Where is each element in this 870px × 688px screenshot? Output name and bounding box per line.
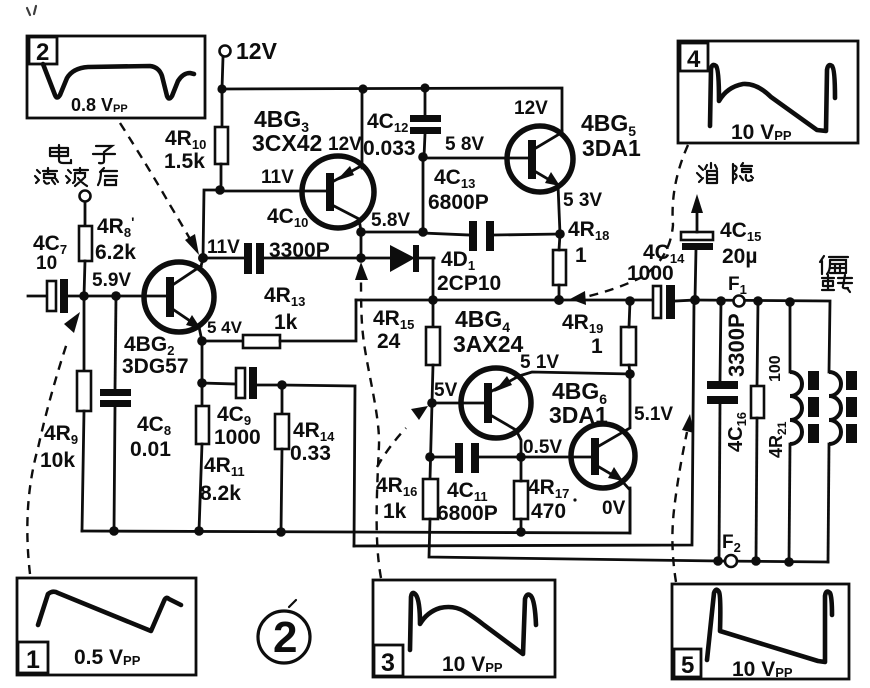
wire node down to BG2 collector node xyxy=(203,190,220,258)
waveform box 2 (0.8Vpp at BG2 collector) xyxy=(27,36,205,118)
svg-text:1: 1 xyxy=(26,646,40,674)
svg-text:3: 3 xyxy=(381,649,395,677)
capacitor C7 xyxy=(28,232,166,313)
svg-text:3300P: 3300P xyxy=(269,239,330,262)
capacitor C12 xyxy=(363,88,441,160)
svg-text:0.033: 0.033 xyxy=(363,137,416,160)
resistor R8 xyxy=(79,214,136,296)
node R19 top xyxy=(625,296,635,306)
node R21 bottom xyxy=(751,556,761,566)
svg-text:1000: 1000 xyxy=(627,262,674,285)
node C16 bottom xyxy=(713,556,723,566)
wire top rail xyxy=(222,88,562,132)
node main/N xyxy=(690,295,700,305)
svg-text:8.2k: 8.2k xyxy=(200,482,241,505)
core bars 1 xyxy=(808,371,819,443)
node BG2 emitter 5.4V xyxy=(197,336,207,346)
node bus C8 xyxy=(109,526,119,536)
svg-text:11V: 11V xyxy=(261,167,294,188)
waveform box 5 (10Vpp at yoke return) xyxy=(672,584,849,681)
svg-text:0.33: 0.33 xyxy=(290,442,331,465)
wire BG4 base to R16 xyxy=(430,403,432,479)
label dianzi lvbohou (after electronic filter) xyxy=(35,145,117,186)
transistor Q BG5 3DA1 xyxy=(507,98,641,234)
resistor R16 xyxy=(376,474,718,561)
svg-text:3DA1: 3DA1 xyxy=(549,402,608,428)
node C10-diode xyxy=(356,253,366,263)
resistor R17 xyxy=(514,457,577,532)
svg-text:5 3V: 5 3V xyxy=(563,190,602,211)
node yoke top xyxy=(785,297,795,307)
svg-text:0.5V: 0.5V xyxy=(523,437,562,458)
wire main line xyxy=(356,299,655,302)
dashed pointer from box 3 up to diode node xyxy=(355,262,381,578)
wire BG2 emitter down xyxy=(201,341,204,383)
resistor R10 xyxy=(164,89,228,190)
svg-text:5: 5 xyxy=(681,652,694,679)
inductor yoke winding 2 xyxy=(828,372,841,562)
svg-text:5 4V: 5 4V xyxy=(207,318,243,337)
node BG4 base 5V xyxy=(427,398,437,408)
svg-text:12V: 12V xyxy=(514,98,548,119)
transistor Q BG2 3DG57 xyxy=(122,259,214,378)
node rail-BG3emitter xyxy=(358,84,367,93)
svg-text:1.5k: 1.5k xyxy=(164,150,205,173)
svg-text:1: 1 xyxy=(575,244,587,267)
circled figure number 2 xyxy=(258,600,310,663)
node BG3 collector 5.8V xyxy=(356,227,366,237)
char bo xyxy=(66,168,88,186)
wire 5.8V node to C12 bottom node xyxy=(361,231,423,234)
capacitor C15 20u blanking xyxy=(681,194,761,300)
node C11 left / R16 xyxy=(425,452,435,462)
node BG6 collector / R19 bottom xyxy=(625,369,635,379)
wire BG5 base xyxy=(423,157,528,160)
capacitor C14 1000 xyxy=(627,241,695,319)
svg-text:470: 470 xyxy=(531,500,566,523)
node diode / R15 xyxy=(428,295,438,305)
12V supply terminal xyxy=(220,38,278,64)
capacitor C8 xyxy=(100,296,171,531)
svg-text:12V: 12V xyxy=(328,134,362,155)
wire feedback to bottom line xyxy=(282,385,355,546)
svg-text:12V: 12V xyxy=(236,38,278,64)
svg-text:6800P: 6800P xyxy=(437,502,498,525)
wire 12V terminal to rail xyxy=(222,57,223,89)
node C16 top xyxy=(716,296,726,306)
label pianzhuan (deflection) vertical xyxy=(820,256,852,292)
svg-text:5.9V: 5.9V xyxy=(92,270,131,291)
node yoke1 bottom xyxy=(784,557,794,567)
dashed pointer from box 1 to input node xyxy=(27,312,80,574)
label xiaoyin (blanking) xyxy=(697,163,753,183)
waveform box 1 (0.5Vpp at BG2 base) xyxy=(17,578,196,675)
wire ground bus xyxy=(82,488,630,533)
capacitor C16 3300P xyxy=(707,301,749,561)
svg-text:3DG57: 3DG57 xyxy=(122,355,189,378)
svg-text:100: 100 xyxy=(767,355,784,382)
resistor R13 (feedback to main line) xyxy=(202,284,356,348)
capacitor C10 3300P xyxy=(203,205,361,274)
svg-text:0V: 0V xyxy=(602,498,626,519)
wire BG5 base node down xyxy=(422,157,425,232)
svg-text:5.1V: 5.1V xyxy=(634,404,673,425)
char yin xyxy=(733,163,753,183)
node bus R17 xyxy=(516,527,526,537)
svg-text:1k: 1k xyxy=(274,311,298,334)
waveform box 4 (10Vpp at output node) xyxy=(678,41,858,144)
fuse F2 xyxy=(722,532,741,567)
waveform box 3 (10Vpp at BG4 base) xyxy=(373,580,555,677)
transistor Q BG3 3CX42 (PNP) xyxy=(252,92,374,231)
node BG5 base xyxy=(418,152,428,162)
svg-text:4: 4 xyxy=(687,46,701,73)
node R21 top xyxy=(753,296,763,306)
scan artifact marks top-left xyxy=(27,6,36,15)
char pian xyxy=(820,256,848,274)
svg-text:10: 10 xyxy=(36,253,57,274)
fuse F1 xyxy=(728,274,747,307)
input terminal (after electronic filter) xyxy=(80,191,91,227)
svg-text:3DA1: 3DA1 xyxy=(582,135,641,161)
svg-text:5 1V: 5 1V xyxy=(520,352,559,373)
capacitor C11 6800P xyxy=(430,443,521,525)
svg-text:1: 1 xyxy=(591,335,603,358)
node input R8 xyxy=(79,291,89,301)
dashed pointer from box 5 to output line xyxy=(672,414,694,582)
svg-text:6.2k: 6.2k xyxy=(95,241,136,264)
resistor R14 xyxy=(275,385,335,532)
node rail-R10 xyxy=(217,84,226,93)
char dian xyxy=(50,145,71,163)
wire 5.8V node link xyxy=(360,232,363,258)
node input C8 xyxy=(111,291,121,301)
node R18 bottom on main line xyxy=(554,295,564,305)
node C9/R14 xyxy=(277,380,287,390)
resistor R9 xyxy=(40,296,91,531)
svg-text:5.8V: 5.8V xyxy=(371,210,410,231)
resistor R11 xyxy=(196,383,245,531)
svg-text:5 8V: 5 8V xyxy=(445,134,484,155)
node bus R11 xyxy=(194,526,204,536)
char zi xyxy=(93,146,115,163)
svg-text:6800P: 6800P xyxy=(428,191,489,214)
wire N line to F1 and deflection xyxy=(695,300,830,372)
resistor R18 xyxy=(553,218,609,300)
svg-text:2CP10: 2CP10 xyxy=(437,272,501,295)
svg-text:2: 2 xyxy=(273,613,297,662)
node bus R14 xyxy=(276,527,286,537)
char lv xyxy=(35,168,58,184)
node rail-C12 xyxy=(420,83,429,92)
resistor R19 xyxy=(562,301,636,374)
diode D1 2CP10 xyxy=(361,245,501,300)
svg-text:24: 24 xyxy=(377,330,401,353)
dashed pointer from box 4 to R18 bottom node xyxy=(570,145,688,305)
inductor yoke winding 1 xyxy=(789,302,802,562)
svg-text:3AX24: 3AX24 xyxy=(453,331,524,357)
transistor Q BG4 3AX24 (PNP) xyxy=(432,306,630,457)
svg-text:10k: 10k xyxy=(40,449,75,472)
svg-text:5V: 5V xyxy=(434,380,458,401)
char hou xyxy=(98,168,117,185)
svg-text:20µ: 20µ xyxy=(722,245,757,268)
svg-text:3300P: 3300P xyxy=(724,313,749,377)
char zhuan xyxy=(822,275,852,292)
svg-text:1k: 1k xyxy=(383,500,407,523)
capacitor C13 6800P xyxy=(423,166,560,251)
node 11V BG2 collector xyxy=(198,253,208,263)
wire bottom return line L4 xyxy=(718,561,828,562)
svg-text:0.01: 0.01 xyxy=(130,438,171,461)
wire feedback bottom line L3 xyxy=(354,301,694,546)
char xiao xyxy=(697,163,717,183)
svg-text:11V: 11V xyxy=(207,237,240,258)
node R10 bottom / BG3 base xyxy=(215,185,225,195)
capacitor C9 (feedback) xyxy=(202,367,282,449)
resistor R15 xyxy=(373,300,440,403)
resistor R21 100 xyxy=(751,301,789,561)
node BG5 emitter / R18 xyxy=(555,229,565,239)
node emitter/C9/R11 xyxy=(197,378,207,388)
svg-text:3CX42: 3CX42 xyxy=(252,130,322,156)
dashed pointer from box 2 to BG2 collector node xyxy=(120,123,199,255)
node BG6 base / C11 / R17 xyxy=(516,452,526,462)
node C12 bottom branch xyxy=(418,227,428,237)
svg-text:1000: 1000 xyxy=(214,426,261,449)
transistor Q BG6 3DA1 xyxy=(521,374,673,533)
wire node to BG3 base xyxy=(220,190,326,193)
core bars 2 xyxy=(846,371,857,443)
dashed pointer branch to BG4 base xyxy=(377,406,428,467)
